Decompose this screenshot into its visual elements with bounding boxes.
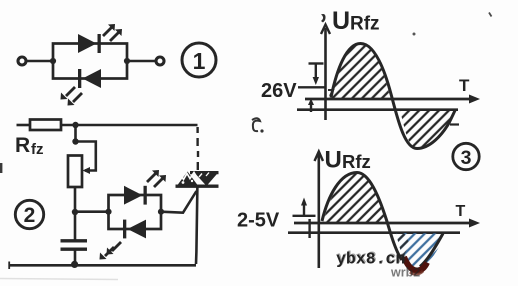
capacitor C1 <box>61 212 88 265</box>
label T (graph b) <box>456 203 466 220</box>
light emission arrows (D4) <box>100 242 122 260</box>
node (LED box right) <box>158 209 164 215</box>
wire (parallel branch box circuit 2) <box>109 195 162 229</box>
wire (parallel branch box circuit 1) <box>53 44 127 79</box>
node (left junction circuit 1) <box>50 58 56 64</box>
sine wave positive lobe hatch (graph b) <box>323 173 386 224</box>
resistor RP (vertical, circuit 2) <box>68 156 82 188</box>
wire (circuit 2 top-left lead) <box>17 124 31 127</box>
sine wave positive lobe hatch (graph a) <box>332 44 391 99</box>
label 26V <box>261 80 297 102</box>
svg-text:26V: 26V <box>261 80 297 102</box>
node D (bottom rail junction) <box>71 261 78 268</box>
label URfz (graph b) <box>325 147 371 174</box>
svg-text:2: 2 <box>24 204 36 227</box>
label T (graph a) <box>459 76 470 95</box>
watermark ybx8.cn <box>336 249 407 269</box>
sine wave curve (graph a) <box>331 44 455 149</box>
wire <box>75 210 109 213</box>
svg-text:Rfz: Rfz <box>342 151 371 172</box>
light emission arrows (D3) <box>147 170 166 187</box>
wire <box>27 60 54 63</box>
dimension marks (26V) <box>298 64 326 113</box>
axis U (graph b vertical) <box>315 152 324 269</box>
svg-text:1: 1 <box>193 48 206 74</box>
resistor Rfz <box>30 120 61 131</box>
svg-text:T: T <box>459 76 470 95</box>
LED D1 (top branch, circuit 1) <box>78 34 101 53</box>
node C (capacitor junction) <box>72 209 78 215</box>
axis U (graph a vertical) <box>321 25 330 121</box>
node A (top junction) <box>72 122 78 128</box>
T axis (graph a) <box>297 95 480 110</box>
scan streak (bottom) <box>0 279 118 280</box>
sine wave negative lobe hatch (graph b, blue) <box>396 233 443 269</box>
label 2-5V <box>237 210 280 232</box>
svg-text:R: R <box>15 134 30 157</box>
label circled 2 <box>15 200 43 228</box>
wire (triac MT1 to bottom rail) <box>196 186 197 264</box>
LED D4 (bottom branch, circuit 2) <box>123 220 146 239</box>
light emission arrows (D2) <box>61 87 83 106</box>
wire (rheostat wiper loop) <box>76 142 96 175</box>
label circled 3 <box>453 143 479 169</box>
sine wave negative lobe hatch (graph a) <box>400 110 455 149</box>
terminal T1 (circuit 1 left) <box>18 57 26 65</box>
wire (dashed lead to triac MT2) <box>196 127 199 170</box>
speck (scribble near 26V) <box>252 118 264 132</box>
svg-text:T: T <box>456 203 466 220</box>
T axis (graph b) <box>288 219 480 233</box>
svg-text:Rfz: Rfz <box>350 14 380 35</box>
wire (triac gate lead) <box>161 191 197 213</box>
wire (circuit 2 top rail) <box>61 124 198 127</box>
wire <box>127 60 156 63</box>
wire (bottom rail) <box>9 262 196 270</box>
edge mark (left border artifact) <box>0 163 2 173</box>
node (right junction circuit 1) <box>124 58 130 64</box>
light emission arrows (D1) <box>103 24 122 41</box>
svg-text:U: U <box>325 147 342 174</box>
label URfz (graph a) <box>332 7 380 35</box>
white scan speckles over triac <box>177 173 209 184</box>
wire <box>74 187 77 212</box>
svg-text:U: U <box>332 7 350 35</box>
wire <box>74 125 77 142</box>
minus mark (graph a) <box>450 123 459 125</box>
LED D2 (bottom branch, circuit 1) <box>78 69 101 88</box>
node B (wiper junction) <box>72 138 78 144</box>
label circled 1 <box>182 43 216 77</box>
triac VS <box>176 172 219 187</box>
speck (comma above graph a axis arrow) <box>321 14 326 22</box>
node (LED box left) <box>105 209 111 215</box>
watermark wrb2 (faint red) <box>390 266 420 280</box>
sine wave curve (graph b) <box>322 173 443 275</box>
speck (scribble at graph a axis foot) <box>328 90 333 96</box>
speck (dot) <box>413 33 416 36</box>
label Rfz <box>15 134 44 158</box>
dimension marks (2-5V) <box>293 198 316 239</box>
svg-text:wrb2: wrb2 <box>390 266 420 280</box>
svg-text:2-5V: 2-5V <box>237 210 280 232</box>
LED D3 (top branch, circuit 2) <box>124 186 147 205</box>
speck (apostrophe top right) <box>489 13 492 17</box>
svg-text:fz: fz <box>31 141 44 158</box>
svg-text:3: 3 <box>461 147 472 169</box>
terminal T2 (circuit 1 right) <box>156 57 164 65</box>
